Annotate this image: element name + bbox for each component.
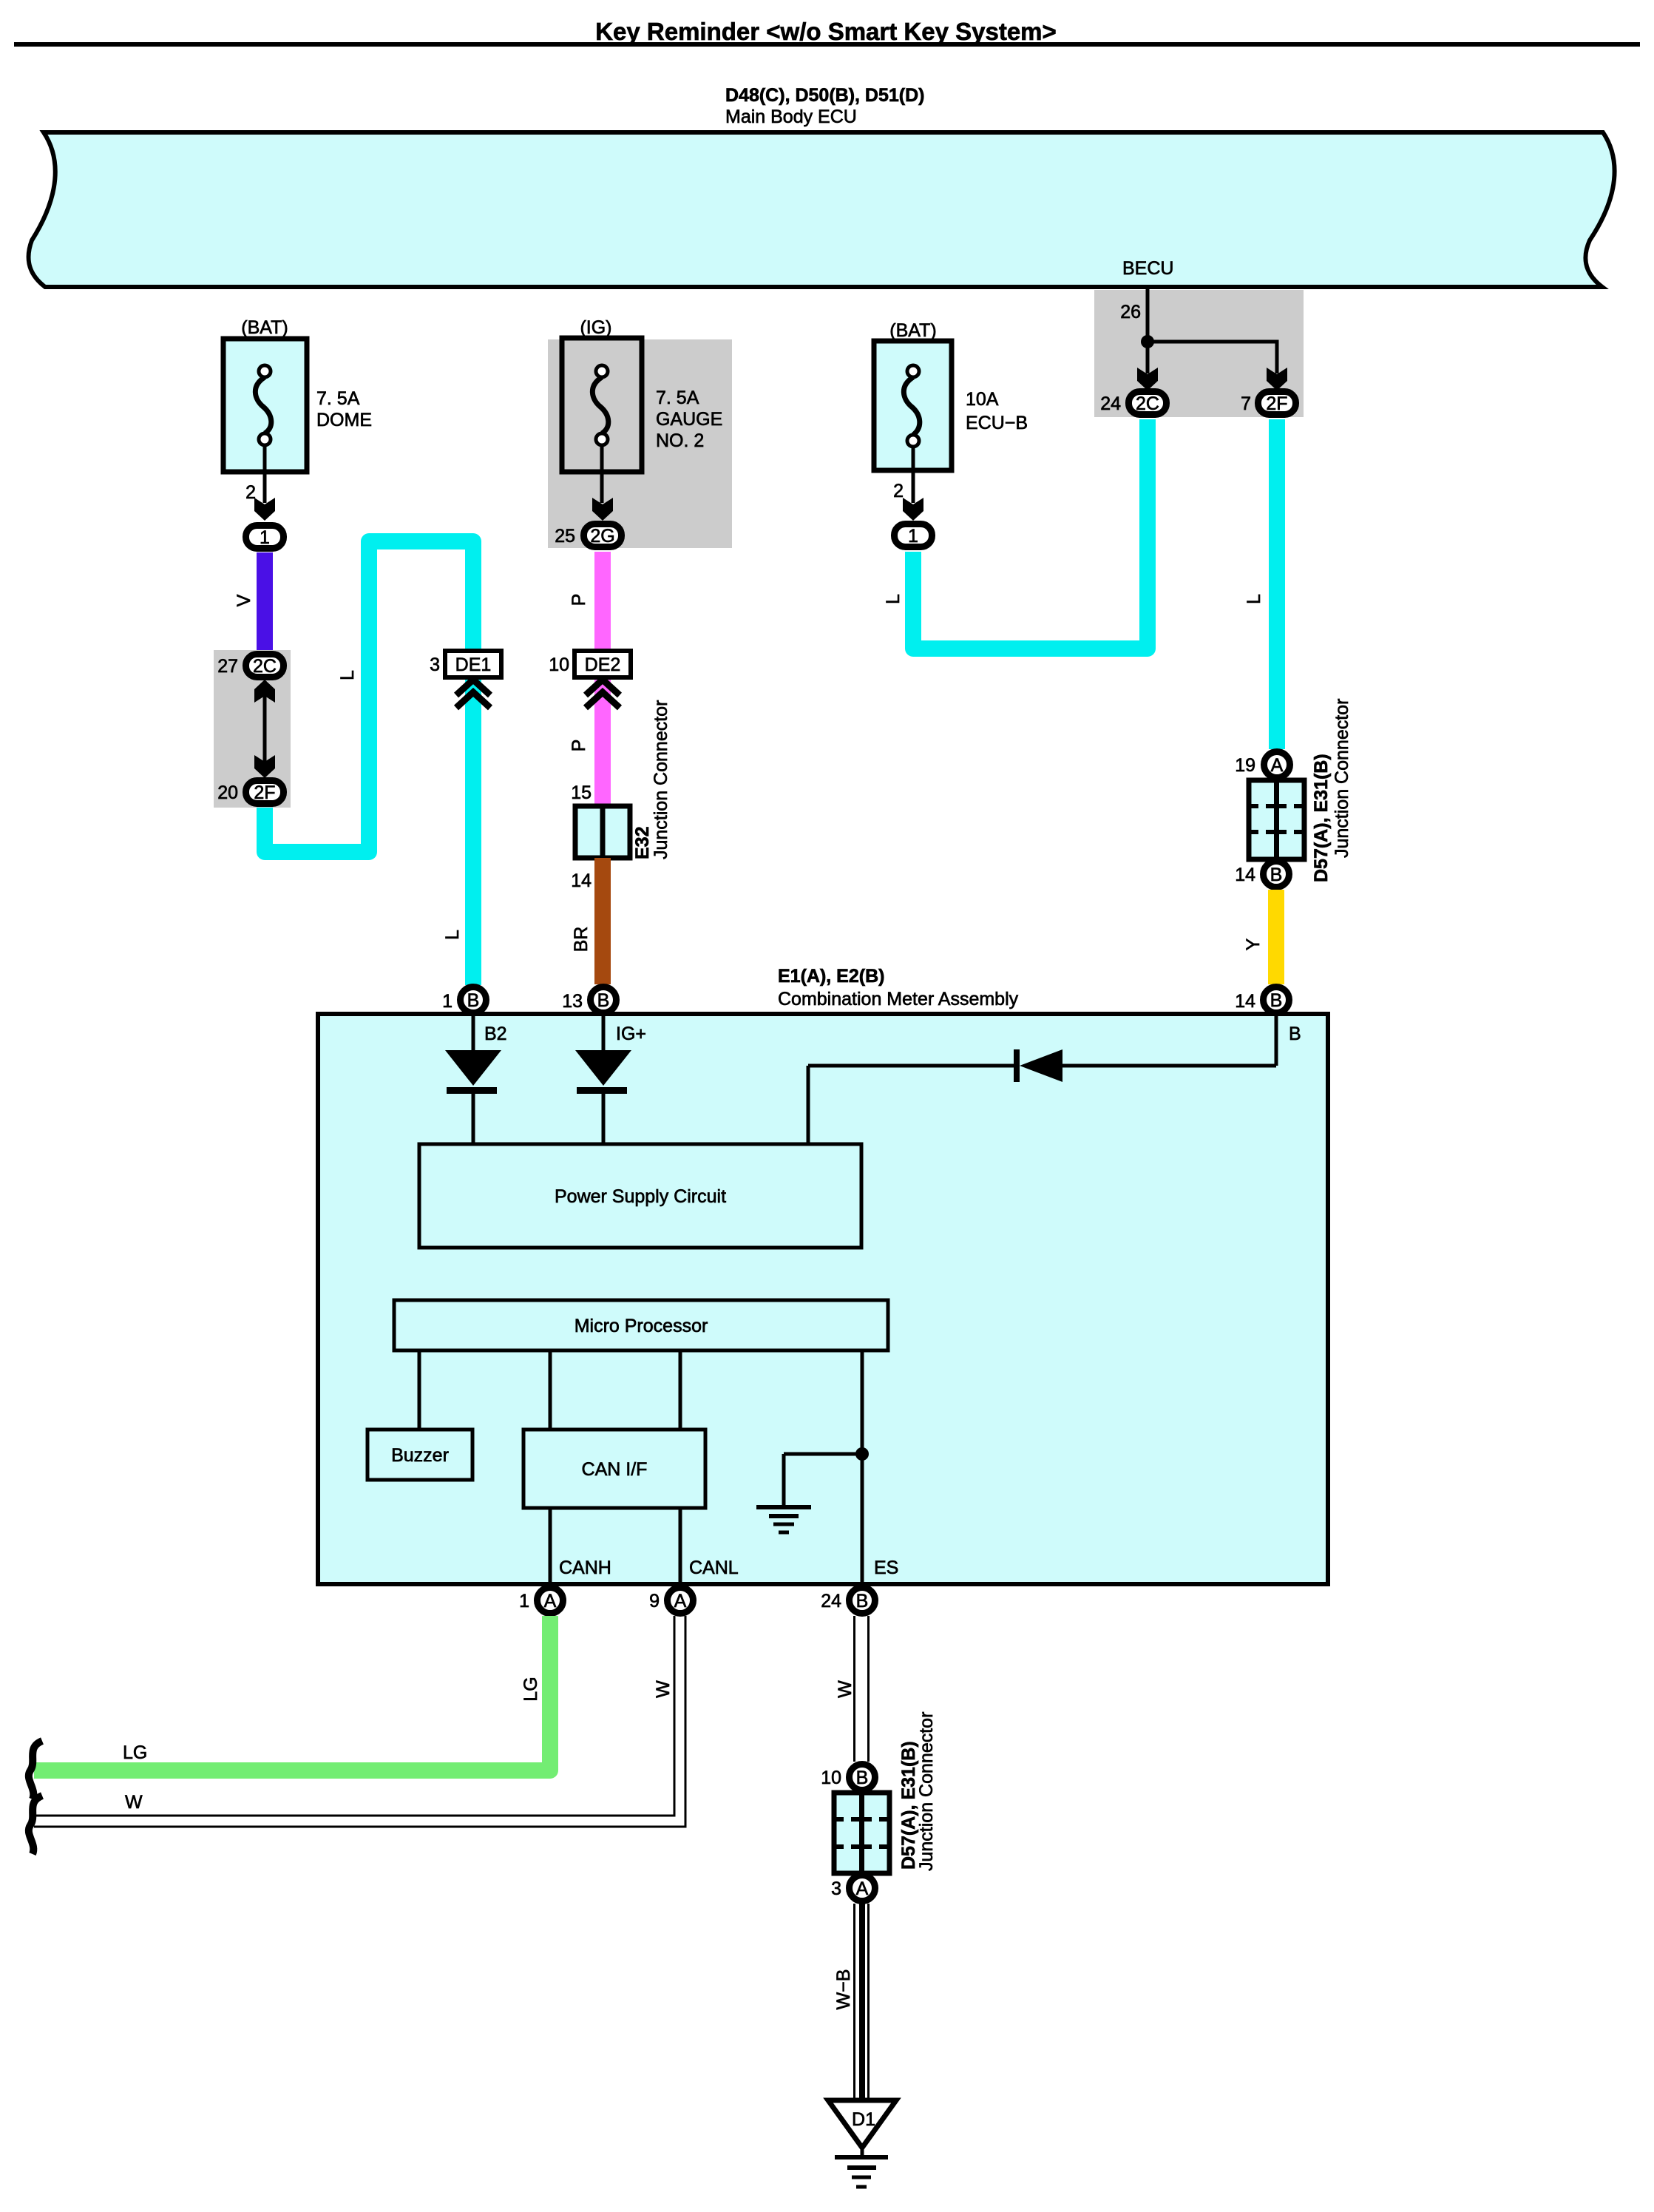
wire L cyan from 2F down to junction connector A (1269, 419, 1285, 749)
break symbol LG (29, 1741, 42, 1799)
double arrow between 2C and 2F (263, 681, 267, 777)
junction connector E32 (575, 806, 630, 858)
wire BECU branch horizontal (1148, 342, 1277, 373)
wire fuse to connector 2G (600, 445, 604, 503)
svg-text:L: L (883, 594, 904, 604)
svg-text:(IG): (IG) (580, 317, 611, 338)
svg-text:GAUGE: GAUGE (656, 409, 722, 430)
pin B circle (14) (1264, 987, 1289, 1013)
wire CANH (549, 1508, 552, 1584)
wire micro to buzzer (418, 1350, 421, 1430)
svg-text:ECU−B: ECU−B (966, 413, 1028, 433)
svg-text:1: 1 (908, 526, 918, 547)
svg-text:3: 3 (831, 1878, 841, 1899)
svg-text:CANH: CANH (559, 1557, 611, 1578)
svg-text:20: 20 (217, 782, 238, 803)
wire P pink upper (594, 552, 611, 806)
svg-text:E32: E32 (632, 827, 653, 859)
svg-text:24: 24 (821, 1591, 841, 1611)
fuse 7.5A GAUGE symbol (592, 377, 608, 433)
wire stub to 2C (1146, 342, 1150, 373)
svg-text:1: 1 (442, 991, 453, 1012)
shield chevrons DE1 (456, 680, 490, 695)
svg-text:BR: BR (571, 927, 592, 953)
svg-text:Power Supply Circuit: Power Supply Circuit (555, 1186, 726, 1207)
pin B circle (13) (591, 987, 617, 1013)
connector 2G (584, 524, 622, 547)
junction connector D57/E31 lower box (834, 1793, 889, 1873)
ground symbol internal (756, 1505, 811, 1509)
svg-text:2: 2 (893, 481, 904, 501)
svg-text:CAN I/F: CAN I/F (582, 1459, 648, 1480)
svg-text:L: L (337, 670, 358, 680)
pin B circle (1) (461, 987, 487, 1013)
svg-text:B: B (1289, 1024, 1301, 1044)
grey highlight box 2C/2F (214, 650, 291, 808)
svg-text:Combination Meter Assembly: Combination Meter Assembly (778, 989, 1019, 1009)
svg-text:L: L (1244, 594, 1264, 604)
connector DE2 (575, 651, 631, 677)
svg-text:W: W (653, 1680, 674, 1698)
svg-text:7: 7 (1241, 393, 1251, 414)
svg-text:BECU: BECU (1122, 258, 1173, 279)
wire W-B (853, 1904, 855, 2100)
internal ground branch (784, 1452, 862, 1456)
svg-text:2F: 2F (254, 782, 275, 803)
svg-text:9: 9 (649, 1591, 660, 1611)
Main Body ECU band (29, 132, 1615, 287)
svg-text:W: W (835, 1680, 855, 1698)
svg-text:B: B (1270, 865, 1283, 885)
wire L cyan from ECU-B fuse to 2C (913, 419, 1148, 649)
wire CANL (679, 1508, 682, 1584)
svg-text:Junction Connector: Junction Connector (651, 700, 671, 859)
svg-text:L: L (442, 930, 463, 940)
wire ES (861, 1350, 864, 1584)
svg-text:D48(C), D50(B), D51(D): D48(C), D50(B), D51(D) (725, 85, 924, 106)
wire LG green (34, 1616, 550, 1770)
svg-text:B: B (1270, 990, 1283, 1011)
wire Y yellow (1268, 890, 1284, 984)
svg-text:B2: B2 (484, 1024, 507, 1044)
arrow into 2C (1137, 368, 1158, 390)
connector 1 (DOME) (246, 526, 284, 549)
svg-text:Y: Y (1243, 938, 1264, 950)
connector 2F (right) (1258, 392, 1296, 415)
wire BR brown (594, 858, 611, 984)
fuse 7.5A DOME box (223, 339, 307, 472)
connector DE1 (445, 651, 501, 677)
svg-text:1: 1 (519, 1591, 529, 1611)
wire fuse to connector 1 (263, 445, 267, 503)
fuse 7.5A GAUGE NO.2 box (562, 338, 642, 472)
diode D-B2 (472, 1016, 475, 1050)
svg-text:A: A (856, 1878, 869, 1899)
arrow into connector 1 (254, 498, 275, 521)
break symbol W (29, 1796, 42, 1854)
svg-text:B: B (856, 1768, 869, 1788)
svg-text:DOME: DOME (316, 410, 372, 430)
svg-text:Micro Processor: Micro Processor (575, 1316, 708, 1336)
svg-text:P: P (569, 594, 589, 606)
svg-text:2G: 2G (590, 526, 614, 547)
pin A circle (CANL) (668, 1588, 694, 1614)
svg-text:19: 19 (1235, 755, 1255, 776)
svg-text:(BAT): (BAT) (241, 317, 288, 338)
svg-text:3: 3 (430, 655, 440, 675)
diode D-B (left pointing) (1020, 1049, 1062, 1082)
svg-text:ES: ES (874, 1557, 898, 1578)
svg-text:Buzzer: Buzzer (391, 1445, 449, 1466)
svg-text:10: 10 (821, 1768, 841, 1788)
fuse 10A ECU-B box (874, 341, 952, 470)
ground D1 triangle (828, 2100, 896, 2148)
Micro Processor box (394, 1300, 888, 1350)
svg-text:E1(A), E2(B): E1(A), E2(B) (778, 966, 884, 987)
wire V violet (257, 552, 273, 650)
arrow into 2F (1267, 368, 1287, 390)
wire B internal (1275, 1016, 1278, 1066)
svg-text:14: 14 (571, 870, 592, 891)
fuse 10A ECU-B symbol (904, 377, 919, 435)
svg-text:1: 1 (260, 527, 270, 548)
wire L cyan from 2F to DE1 to meter 1B (265, 541, 473, 985)
svg-text:15: 15 (571, 782, 592, 803)
svg-text:2C: 2C (1136, 393, 1159, 414)
svg-text:D57(A), E31(B): D57(A), E31(B) (1311, 754, 1332, 882)
wire BECU vertical (1146, 288, 1150, 342)
title rule (14, 42, 1640, 47)
shield chevrons DE2 (586, 680, 620, 695)
Power Supply Circuit box (419, 1144, 861, 1248)
svg-text:W: W (125, 1792, 143, 1813)
junction connector B circle (D57 upper) (1264, 862, 1289, 887)
svg-text:Junction Connector: Junction Connector (1332, 699, 1352, 858)
svg-text:NO. 2: NO. 2 (656, 430, 704, 451)
svg-text:14: 14 (1235, 991, 1255, 1012)
svg-text:10A: 10A (966, 389, 999, 410)
svg-text:A: A (544, 1591, 557, 1611)
arrow into connector 1 (903, 498, 923, 521)
svg-text:LG: LG (521, 1677, 541, 1701)
svg-text:Key Reminder <w/o Smart Key Sy: Key Reminder <w/o Smart Key System> (595, 18, 1057, 45)
svg-text:26: 26 (1120, 302, 1141, 322)
svg-text:W−B: W−B (833, 1969, 854, 2010)
svg-text:10: 10 (549, 655, 569, 675)
svg-text:A: A (674, 1591, 687, 1611)
grey highlight box GAUGE (548, 339, 732, 548)
svg-text:DE2: DE2 (585, 655, 621, 675)
fuse 7.5A DOME symbol (255, 377, 271, 433)
svg-text:(BAT): (BAT) (889, 320, 936, 341)
junction dot ES (855, 1447, 869, 1461)
connector 2C (left) (246, 655, 284, 677)
grey highlight box BECU outputs (1094, 290, 1304, 417)
pin A circle (CANH) (538, 1588, 563, 1614)
junction connector D57/E31 upper box (1249, 780, 1304, 859)
svg-text:A: A (1271, 755, 1284, 776)
svg-text:24: 24 (1100, 393, 1121, 414)
ground symbol D1 (861, 2148, 864, 2155)
connector 2F (left) (246, 781, 284, 804)
svg-text:D1: D1 (852, 2109, 875, 2130)
Combination Meter Assembly box (318, 1014, 1328, 1584)
svg-text:25: 25 (555, 526, 575, 547)
svg-text:13: 13 (562, 991, 583, 1012)
svg-text:LG: LG (123, 1742, 147, 1763)
CAN I/F box (523, 1430, 705, 1508)
svg-text:27: 27 (217, 656, 238, 677)
svg-text:7. 5A: 7. 5A (656, 388, 699, 408)
svg-text:Main Body ECU: Main Body ECU (725, 106, 857, 127)
wire W from ES (853, 1616, 855, 1762)
svg-text:B: B (597, 990, 610, 1011)
svg-text:2C: 2C (253, 656, 277, 677)
svg-text:2F: 2F (1266, 393, 1287, 414)
connector 1 (ECU-B) (895, 524, 932, 547)
wire W from CANL (34, 1616, 674, 1816)
svg-text:CANL: CANL (689, 1557, 739, 1578)
svg-text:V: V (234, 594, 254, 606)
svg-text:7. 5A: 7. 5A (316, 388, 360, 409)
wire fuse to connector 1 (912, 447, 915, 503)
junction connector A circle (D57 upper) (1264, 752, 1290, 778)
diode D-IG (602, 1016, 606, 1050)
svg-text:Junction Connector: Junction Connector (916, 1712, 937, 1871)
junction connector B circle (D57 lower) (850, 1765, 875, 1790)
svg-text:14: 14 (1235, 865, 1255, 885)
svg-text:DE1: DE1 (455, 655, 492, 675)
svg-text:IG+: IG+ (616, 1024, 646, 1044)
wires micro to CAN I/F (549, 1350, 552, 1430)
connector 2C (right) (1129, 392, 1167, 415)
junction dot (1141, 335, 1154, 348)
svg-text:B: B (467, 990, 480, 1011)
junction connector A circle (D57 lower) (850, 1876, 875, 1901)
pin B circle (ES) (850, 1588, 875, 1614)
Buzzer box (367, 1430, 472, 1480)
svg-text:B: B (856, 1591, 869, 1611)
svg-text:P: P (569, 740, 589, 752)
svg-text:2: 2 (245, 482, 256, 503)
arrow into 2G (592, 498, 613, 521)
